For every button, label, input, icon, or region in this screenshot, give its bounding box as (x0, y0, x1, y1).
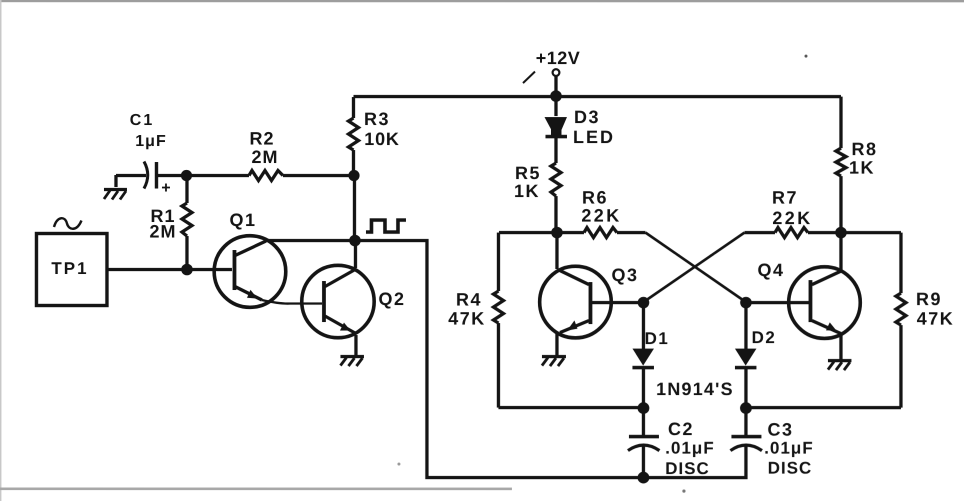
wire Q3 emitter to ground (555, 334, 558, 356)
svg-text:R4: R4 (456, 290, 482, 310)
svg-text:Q4: Q4 (757, 260, 784, 280)
svg-text:10K: 10K (364, 129, 399, 149)
transistor Q2 (302, 265, 374, 337)
wire node E to Q3 collector (555, 233, 558, 269)
svg-text:R7: R7 (772, 188, 798, 208)
resistor R9 (751, 233, 906, 408)
wire +12V bus (353, 95, 841, 98)
wire node F to Q4 collector (839, 233, 842, 271)
node F junction (R7/R8/Q4 collector) (835, 227, 847, 239)
ground (C1 input ground) (104, 175, 127, 200)
svg-text:C3: C3 (767, 420, 793, 440)
svg-text:.01μF: .01μF (764, 439, 813, 458)
transistor Q1 (214, 236, 286, 308)
svg-text:1μF: 1μF (135, 133, 166, 150)
transistor Q4 (789, 267, 861, 339)
diode D1 (632, 303, 654, 403)
svg-text:1K: 1K (514, 181, 540, 201)
ground (Q2 emitter) (340, 357, 364, 367)
node D junction (+12V bus / D3) (550, 90, 562, 102)
resistor R4 (493, 233, 638, 408)
node A junction (C1/R1/R2) (181, 170, 192, 181)
resistor R1 (182, 176, 192, 270)
svg-text:R3: R3 (364, 109, 390, 129)
svg-text:Q2: Q2 (378, 289, 405, 309)
wire ground to C1 (116, 174, 146, 177)
wire TP1 to Q1 base (107, 268, 232, 271)
wire Q1 collector to node C (265, 239, 355, 242)
svg-text:2M: 2M (251, 147, 278, 167)
test point TP1 box (36, 234, 107, 306)
node K junction (trigger line/C2) (638, 472, 650, 484)
svg-text:R8: R8 (851, 139, 877, 159)
svg-text:DISC: DISC (665, 459, 710, 478)
resistor R2 (186, 171, 354, 181)
wire R6 to Q4 base (cross-coupling) (645, 233, 746, 303)
node I junction (Q4 base/D2/R6 diagonal) (740, 297, 752, 309)
wire trigger line to C3 bottom (643, 445, 746, 478)
wire node B to node C (353, 176, 356, 241)
node E junction (R5/R4/R6/Q3 collector) (551, 227, 563, 239)
svg-text:C1: C1 (130, 112, 154, 129)
svg-text:1K: 1K (849, 158, 875, 178)
ground (Q4 emitter) (828, 361, 852, 371)
transistor Q3 (540, 266, 612, 338)
svg-text:R9: R9 (916, 289, 942, 309)
svg-text:D2: D2 (752, 328, 777, 347)
capacitor C1 (144, 162, 170, 192)
svg-text:1N914'S: 1N914'S (656, 379, 734, 399)
svg-text:TP1: TP1 (51, 259, 88, 278)
LED D3 (544, 96, 567, 163)
wire Q1 emitter to Q2 base (262, 300, 322, 304)
svg-text:D3: D3 (574, 107, 600, 127)
svg-text:R6: R6 (582, 188, 608, 208)
node J junction (R4/D1/C2) (638, 402, 650, 414)
diode D2 (735, 303, 757, 404)
svg-text:.01μF: .01μF (665, 439, 714, 458)
+12V terminal (523, 69, 559, 95)
capacitor C3 (730, 408, 762, 451)
wire node F to R9 (845, 231, 901, 234)
node H junction (Q3 base/D1/R7 diagonal) (638, 297, 650, 309)
wire Q4 base lead (746, 301, 809, 304)
wire Q2 emitter to ground (354, 335, 357, 355)
svg-text:47K: 47K (917, 309, 955, 329)
wire node C to Q2 collector (354, 241, 357, 268)
capacitor C2 (628, 408, 660, 477)
wire Q4 emitter to ground (839, 335, 842, 359)
resistor R7 (744, 228, 836, 238)
square wave symbol (366, 220, 406, 232)
resistor R6 (561, 228, 646, 238)
resistor R3 (348, 97, 358, 175)
svg-text:LED: LED (573, 127, 615, 147)
svg-text:R2: R2 (249, 129, 274, 149)
node G junction (R1/TP1/Q1 base) (181, 264, 193, 276)
svg-text:2M: 2M (149, 222, 176, 242)
wire node E to R4 (499, 231, 552, 234)
svg-text:Q1: Q1 (229, 210, 256, 230)
svg-text:D1: D1 (645, 329, 670, 348)
wire C1 to node A (157, 174, 186, 177)
resistor R8 (836, 97, 846, 233)
svg-text:22K: 22K (772, 208, 812, 228)
svg-text:Q3: Q3 (611, 265, 638, 285)
svg-text:47K: 47K (448, 309, 486, 329)
node L junction (R9/D2/C3) (740, 402, 752, 414)
wire node C to trigger line (C2/C3 bottoms) (355, 241, 640, 478)
svg-text:C2: C2 (668, 419, 694, 439)
wire Q3 base to R7 (cross-coupling) (643, 233, 744, 303)
node C junction (collector Q1/Q2) (349, 235, 361, 247)
wire Q3 base lead (592, 301, 640, 304)
svg-text:22K: 22K (581, 206, 621, 226)
svg-text:+12V: +12V (536, 48, 581, 68)
sine wave symbol at TP1 (54, 218, 82, 229)
svg-text:R5: R5 (515, 163, 541, 183)
ground (Q3 emitter) (542, 357, 566, 367)
svg-text:DISC: DISC (768, 459, 813, 478)
node B junction (R2/R3) (348, 170, 359, 181)
resistor R5 (551, 163, 561, 232)
